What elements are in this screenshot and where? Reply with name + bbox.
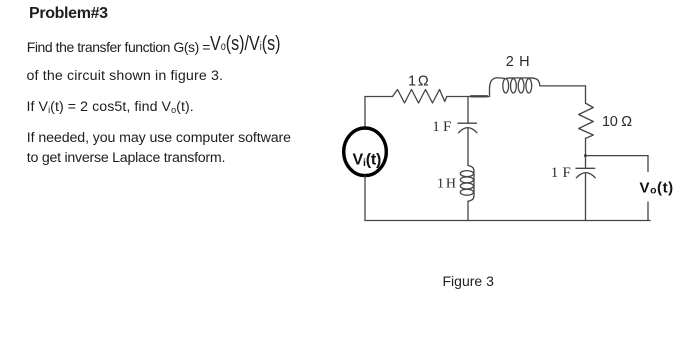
title: [29, 6, 108, 22]
label 1ohm: [408, 74, 431, 90]
capacitor C2 1F curved bottom plate: [576, 173, 595, 178]
inductor L2 2H loop 1: [503, 79, 509, 93]
wire top-left horizontal: [365, 96, 393, 98]
paragraph line 1: [27, 40, 210, 54]
output terminal lower lead: [647, 202, 649, 221]
label 1 H: [437, 177, 456, 192]
inductor L2 2H loop 4: [526, 79, 532, 93]
inductor L1 1H spine: [468, 166, 474, 202]
wire C1 to inductor L1: [467, 129, 469, 166]
resistor R1 1ohm zigzag: [393, 90, 447, 104]
inductor L2 2H loop 3: [518, 79, 524, 93]
inductor L2 2H loop 2: [511, 79, 517, 93]
svg-text:1 F: 1 F: [551, 165, 571, 181]
label 2 H: [506, 54, 530, 70]
voltage source Vi(t): [344, 128, 387, 176]
wire left vertical lower: [364, 176, 366, 221]
inductor L1 1H loop 4: [460, 189, 473, 195]
wire left vertical upper: [364, 97, 366, 129]
paragraph line 5: [27, 151, 225, 165]
wire resistor to node A: [447, 96, 490, 98]
inductor L1 1H loop 1: [460, 171, 473, 177]
svg-text:1Ω: 1Ω: [408, 74, 431, 90]
inductor L1 1H loop 2: [460, 177, 473, 183]
bottom wire: [365, 220, 650, 222]
output terminal upper lead: [647, 156, 649, 172]
label 1 F middle: [432, 119, 451, 135]
wire L2 to right corner: [540, 85, 586, 87]
node B junction dot: [584, 154, 587, 156]
capacitor C1 1F top plate: [458, 122, 477, 124]
svg-text:Vi(t): Vi(t): [353, 151, 382, 169]
svg-text:10 Ω: 10 Ω: [602, 114, 632, 130]
wire node B to output branch: [586, 155, 649, 157]
capacitor C2 1F top plate: [576, 167, 595, 169]
wire L1 to bottom: [467, 201, 469, 220]
label Vo(t): [640, 180, 674, 197]
node A thick overdrawn segment: [471, 95, 487, 97]
wire right vertical to resistor R2: [585, 86, 587, 104]
wire node B to capacitor C2: [585, 156, 587, 168]
capacitor C1 1F curved bottom plate: [459, 128, 478, 133]
label 1 F right: [551, 165, 571, 181]
label 10 ohm: [602, 114, 632, 130]
wire R2 to node B: [585, 138, 587, 155]
svg-text:2 H: 2 H: [506, 54, 530, 70]
figure caption: [443, 274, 494, 288]
svg-text:1 H: 1 H: [437, 177, 456, 192]
paragraph line 2: [27, 69, 224, 83]
paragraph line 4: [27, 131, 291, 145]
inductor L2 2H top arc: [490, 78, 540, 87]
equation Vo(s)/Vi(s): [210, 34, 281, 55]
svg-text:1 F: 1 F: [432, 119, 451, 135]
wire C2 to bottom: [585, 174, 587, 221]
wire step up to inductor L2: [489, 87, 491, 97]
resistor R2 10ohm zigzag: [579, 104, 594, 139]
inductor L1 1H loop 3: [460, 183, 473, 189]
paragraph line 3: [27, 100, 194, 114]
wire node A to capacitor C1: [467, 97, 469, 123]
svg-text:Vo(t): Vo(t): [640, 180, 674, 197]
label Vi(t): [353, 151, 382, 169]
